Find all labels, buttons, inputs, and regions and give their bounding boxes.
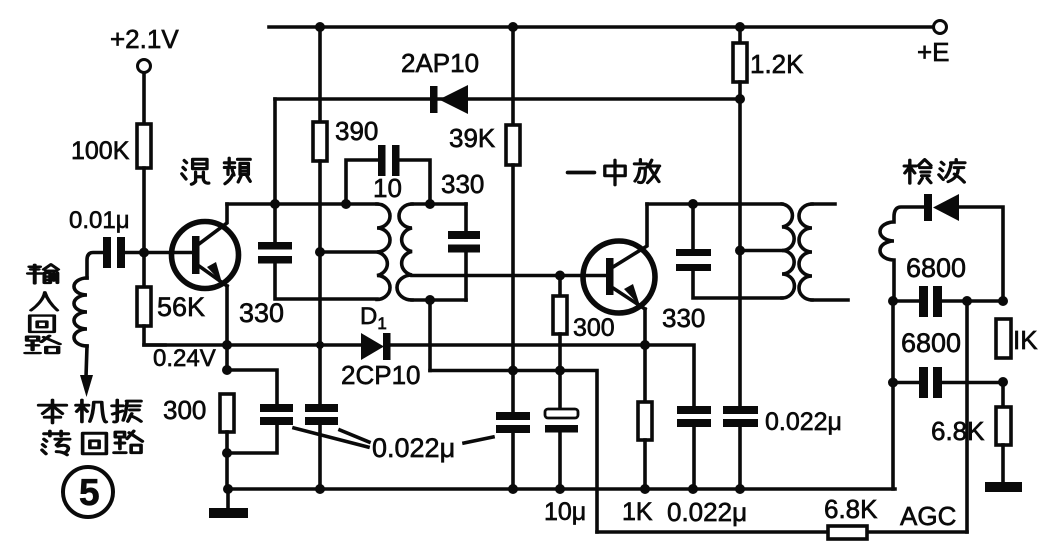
node 1K bottom junction <box>998 377 1008 387</box>
wire cap B to ground rail <box>318 425 322 489</box>
label detector (jian bo) <box>904 160 965 184</box>
svg-text:330: 330 <box>662 303 705 333</box>
node 300 resistor bottom <box>222 448 232 458</box>
svg-text:1.2K: 1.2K <box>750 49 804 79</box>
wire emitter line y=345 right part <box>390 345 694 406</box>
wire 330 IF bottom to T2 bottom <box>693 271 782 298</box>
wire emitter bypass branch top <box>227 370 277 404</box>
ground Q1 stage <box>209 489 248 518</box>
wire cap C to ground rail <box>511 433 515 489</box>
wire Q2 emitter down <box>643 309 647 402</box>
svg-text:0.01μ: 0.01μ <box>69 207 130 234</box>
wire 39K down to AGC bus <box>511 165 515 412</box>
node detector output x=1003 <box>998 296 1008 306</box>
wire 300 bottom to AGC bus <box>558 334 562 371</box>
inductor T2 secondary winding <box>799 204 848 300</box>
node detector coil bottom <box>888 296 898 306</box>
node supply junction x=513 <box>508 22 518 32</box>
node second 6800 left junction <box>888 378 898 388</box>
label 0.022u bottom <box>667 497 747 527</box>
svg-text:+E: +E <box>917 37 950 67</box>
resistor 1K emitter <box>622 402 653 526</box>
wire 1.2K down through tap to cap <box>738 82 742 406</box>
resistor 100K <box>71 124 151 168</box>
node ground rail x=560 <box>555 484 565 494</box>
label first IF amp (yi zhong fang) <box>568 160 660 185</box>
svg-text:5: 5 <box>79 472 100 513</box>
capacitor 10 feedback <box>346 145 430 204</box>
capacitor 10u electrolytic <box>544 371 586 527</box>
label local oscillator loop line2 <box>42 431 142 455</box>
wire Q1 collector line <box>227 202 377 206</box>
wire T1 secondary bottom lead <box>412 298 466 302</box>
wire cap 330 bottom to winding bottom <box>275 263 377 299</box>
wire detector coil bottom to ground rail <box>891 301 895 489</box>
wire 100K to base node <box>142 168 146 287</box>
wire 300 to ground rail <box>225 432 229 489</box>
wire T1 bottom to AGC bus <box>428 300 432 371</box>
capacitor 0.022u B <box>305 404 338 425</box>
svg-text:100K: 100K <box>71 137 130 165</box>
resistor 56K <box>137 287 205 326</box>
node ground rail x=228 <box>223 484 233 494</box>
node 300/10u junction on AGC bus <box>555 366 565 376</box>
node oscillator tap junction <box>315 247 325 257</box>
resistor 39K <box>449 123 520 165</box>
svg-text:6.8K: 6.8K <box>931 416 985 446</box>
capacitor 330 oscillator <box>441 169 484 300</box>
terminal +E <box>917 21 950 68</box>
wire from +2.1V terminal down <box>142 73 146 124</box>
capacitor 6800 first <box>893 253 1003 317</box>
inductor T1 primary left winding <box>377 204 390 300</box>
node T1 secondary bottom junction <box>425 295 435 305</box>
node 330 IF cap junction <box>688 199 698 209</box>
svg-text:0.022μ: 0.022μ <box>765 408 842 436</box>
wire 1K to ground rail <box>643 440 647 489</box>
capacitor 0.022u A <box>260 404 293 425</box>
svg-text:330: 330 <box>441 169 484 199</box>
figure number 5 circled <box>63 467 113 517</box>
transistor Q1 mixer <box>144 204 239 289</box>
node AGC takeoff x=967 <box>962 296 972 306</box>
svg-text:AGC: AGC <box>900 501 956 531</box>
svg-text:390: 390 <box>335 116 378 146</box>
node ground rail x=320 <box>315 484 325 494</box>
resistor 300 Q2 base <box>553 276 615 343</box>
label 0.24V <box>153 345 216 372</box>
node ground rail x=513 <box>508 484 518 494</box>
diode 2AP10 <box>275 48 740 114</box>
svg-text:300: 300 <box>163 395 206 425</box>
diode D1 2CP10 <box>341 303 421 390</box>
wire Q2 collector line <box>647 202 782 206</box>
node collector line x=275 <box>270 199 280 209</box>
label AGC <box>900 501 956 531</box>
diode detector <box>924 194 1003 301</box>
capacitor 330 IF <box>662 204 711 333</box>
svg-text:0.022μ: 0.022μ <box>667 497 747 527</box>
node Q2 emitter on y=345 line <box>640 340 650 350</box>
wire AGC bus y=370 <box>430 371 597 533</box>
wire capacitor to input coil <box>87 253 103 279</box>
wire AGC vertical x=967 <box>965 301 969 532</box>
node 39K on AGC bus <box>508 366 518 376</box>
svg-text:0.24V: 0.24V <box>153 345 216 372</box>
node Q1 emitter on 0.24V line <box>222 340 232 350</box>
node supply junction x=320 <box>315 22 325 32</box>
svg-text:56K: 56K <box>157 292 205 322</box>
svg-text:6800: 6800 <box>901 328 961 358</box>
wire T1 secondary tap to Q2 base <box>412 274 606 278</box>
wire bottom ground rail <box>228 487 895 491</box>
wire top supply rail to +E <box>269 25 933 29</box>
capacitor 0.01u <box>69 207 144 268</box>
resistor 300 Q1 emitter <box>163 394 234 432</box>
label local oscillator loop line1 <box>39 400 141 423</box>
arrow to local oscillator loop <box>80 375 93 397</box>
node Q1 base junction <box>139 248 149 258</box>
svg-text:6800: 6800 <box>906 253 966 283</box>
label mixer (hun pin) <box>182 158 250 184</box>
node ground rail x=693 <box>688 484 698 494</box>
wire 39K branch from rail <box>511 27 515 125</box>
wire diode cathode down to Q1 collector line <box>273 99 277 242</box>
svg-text:330: 330 <box>239 298 284 328</box>
svg-text:2CP10: 2CP10 <box>341 360 421 390</box>
svg-text:IK: IK <box>1013 325 1038 355</box>
label 0.022u with pointer lines <box>294 428 493 463</box>
wire T2 tap <box>740 249 782 253</box>
node Q2 base junction <box>555 271 565 281</box>
capacitor 330 mixer collector <box>239 242 292 328</box>
svg-text:0.022μ: 0.022μ <box>372 433 455 463</box>
wire 0.022 cap D bottom to rail <box>692 427 696 489</box>
wire T1 tap to 390 node <box>320 250 377 254</box>
svg-text:39K: 39K <box>449 123 496 153</box>
svg-text:300: 300 <box>573 314 615 342</box>
resistor 1.2K <box>733 27 804 82</box>
inductor input loop coil <box>74 278 87 346</box>
resistor 6.8K AGC <box>824 494 878 539</box>
ground detector <box>985 445 1022 492</box>
svg-text:10: 10 <box>373 173 402 203</box>
svg-text:1K: 1K <box>622 498 653 526</box>
svg-text:+2.1V: +2.1V <box>110 24 179 54</box>
inductor T2 primary winding <box>782 204 794 298</box>
wire bypass branch bottom <box>227 425 277 453</box>
node T2 tap junction <box>735 246 745 256</box>
resistor 6.8K detector <box>931 407 1011 446</box>
wire T1 secondary top lead <box>412 202 466 206</box>
node ground rail x=645 <box>640 484 650 494</box>
svg-text:2AP10: 2AP10 <box>401 48 479 78</box>
capacitor 0.022u D <box>677 406 711 427</box>
terminal +2.1V <box>110 24 179 73</box>
wire AGC bottom run <box>597 530 967 534</box>
node cap10 left junction <box>341 199 351 209</box>
wire coil to arrow <box>86 346 87 377</box>
capacitor 0.022u E <box>723 406 842 436</box>
capacitor 6800 second <box>893 328 1003 398</box>
svg-text:6.8K: 6.8K <box>824 494 878 524</box>
node on emitter line x=320 <box>316 341 324 349</box>
node supply junction x=740 <box>735 22 745 32</box>
wire 1K bottom to 6.8K <box>1001 382 1005 407</box>
wire 390 to tank tap and bypass <box>318 161 322 404</box>
node cap10 right junction <box>425 199 435 209</box>
svg-text:10μ: 10μ <box>544 498 586 526</box>
resistor 1K detector load <box>996 319 1038 358</box>
node 1.2K diode junction <box>735 94 745 104</box>
wire Q1 emitter down <box>225 286 229 370</box>
inductor detector coupling coil <box>880 207 925 301</box>
wire 390 branch vertical from rail <box>318 27 322 122</box>
wire emitter line y=345 left part <box>144 343 361 347</box>
resistor 390 <box>313 116 378 161</box>
capacitor 0.022u C <box>496 412 530 433</box>
wire 56K bottom to emitter line <box>144 326 165 345</box>
node ground rail x=740 <box>735 484 745 494</box>
node 300 resistor top <box>222 365 232 375</box>
transistor Q2 first IF amp <box>583 204 655 313</box>
label input loop (shu ru hui lu) vertical <box>25 264 59 353</box>
wire cap E to ground rail <box>738 427 742 489</box>
inductor T1 secondary right winding <box>397 204 412 300</box>
